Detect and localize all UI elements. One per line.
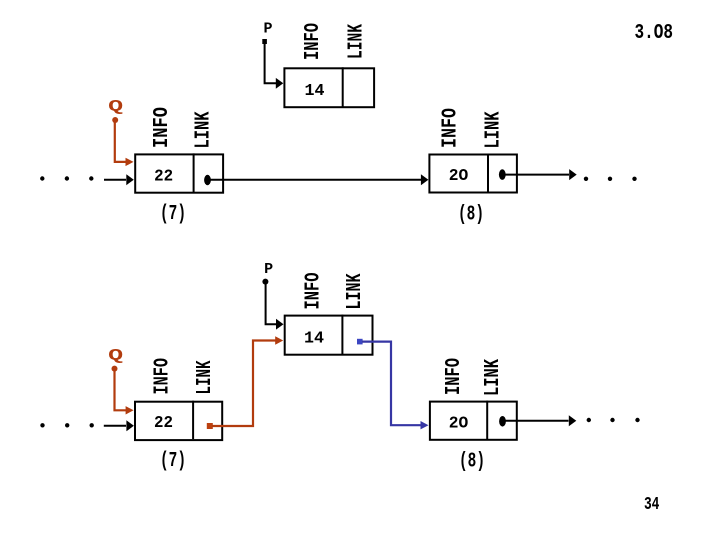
svg-text:14: 14: [305, 82, 325, 101]
svg-text:2O: 2O: [449, 167, 469, 186]
svg-text:22: 22: [154, 414, 173, 433]
svg-text:3.O8: 3.O8: [635, 22, 674, 45]
svg-text:22: 22: [154, 167, 173, 186]
svg-text:P: P: [263, 21, 272, 38]
svg-text:LINK: LINK: [483, 111, 506, 148]
svg-text:LINK: LINK: [345, 24, 368, 59]
svg-text:INFO: INFO: [439, 108, 462, 148]
svg-text:(7): (7): [160, 203, 186, 226]
svg-text:INFO: INFO: [303, 273, 326, 310]
svg-text:LINK: LINK: [194, 360, 217, 394]
svg-text:14: 14: [304, 329, 324, 348]
svg-text:34: 34: [644, 494, 660, 515]
svg-text:LINK: LINK: [193, 111, 216, 148]
svg-text:LINK: LINK: [344, 273, 367, 309]
svg-text:Q: Q: [108, 346, 123, 364]
svg-text:INFO: INFO: [151, 107, 174, 148]
svg-text:(8): (8): [459, 451, 485, 474]
svg-text:2O: 2O: [449, 414, 469, 433]
svg-text:(8): (8): [458, 204, 484, 227]
svg-text:LINK: LINK: [482, 359, 505, 396]
svg-text:INFO: INFO: [151, 358, 174, 395]
svg-text:(7): (7): [160, 450, 186, 473]
svg-text:INFO: INFO: [302, 23, 325, 60]
svg-text:P: P: [264, 261, 273, 278]
svg-text:Q: Q: [108, 98, 123, 116]
svg-text:INFO: INFO: [443, 358, 466, 395]
